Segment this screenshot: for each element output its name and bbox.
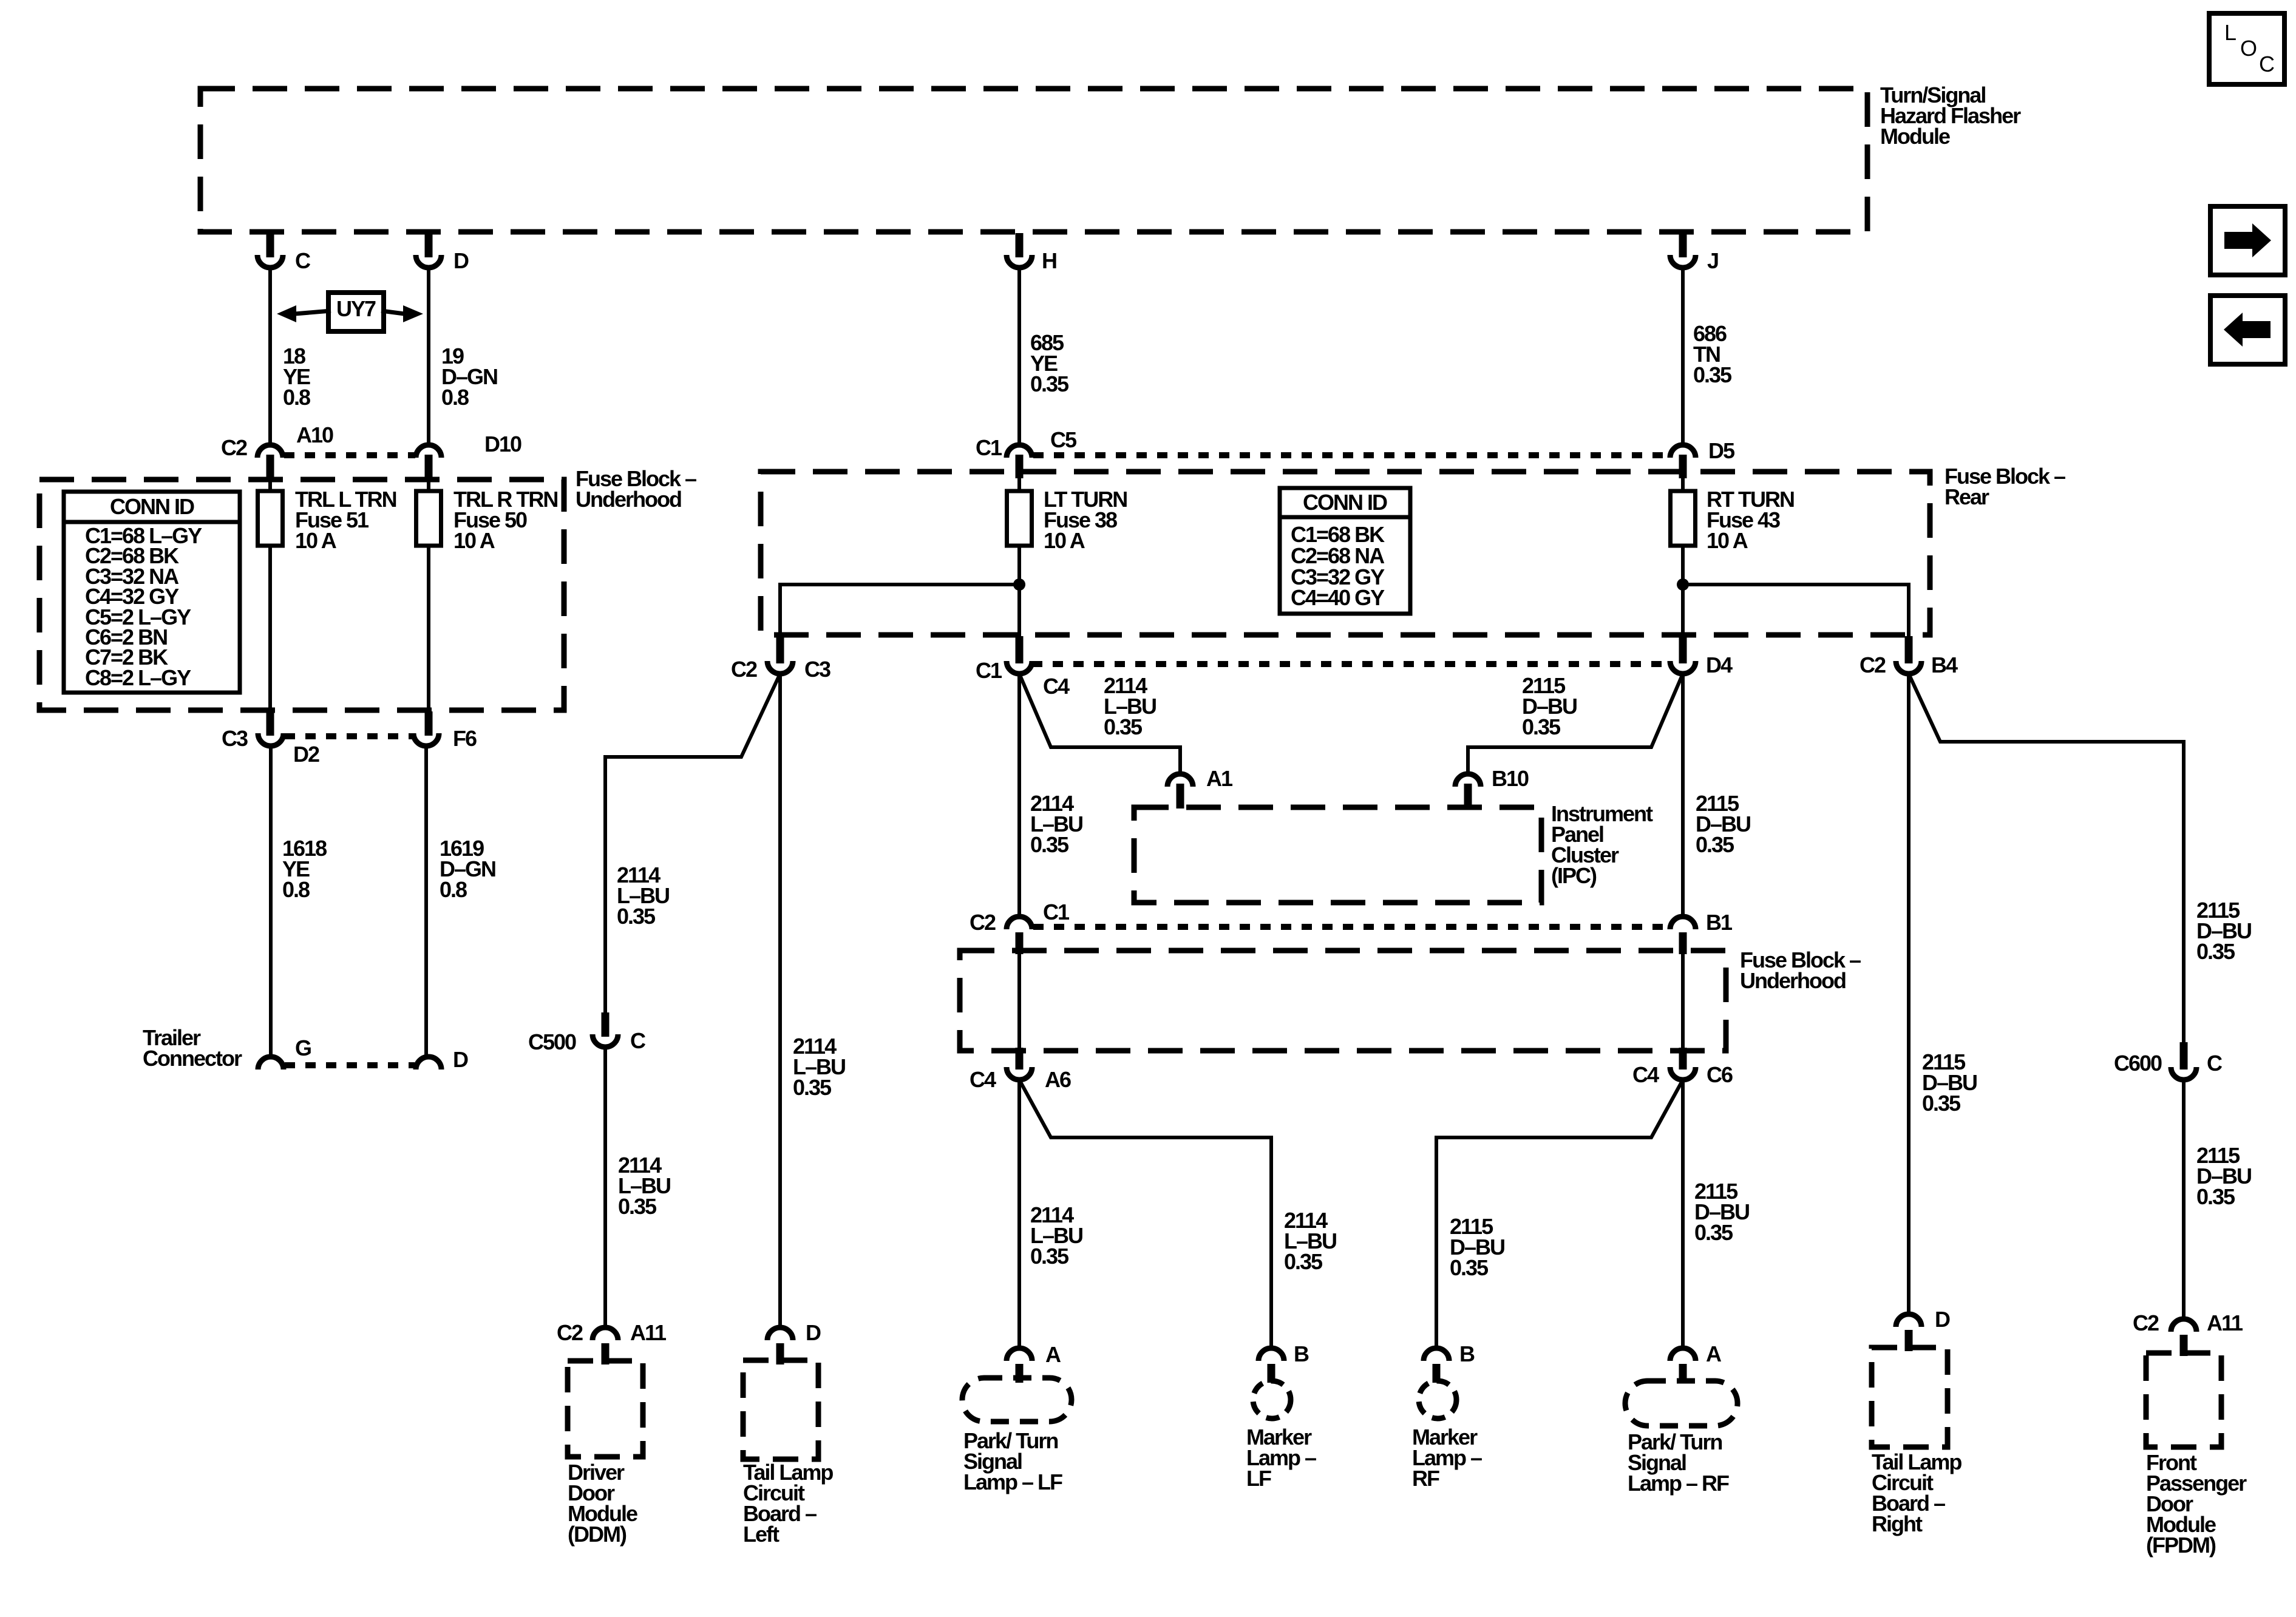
connector C2/A11 (FPDM)	[2133, 1310, 2243, 1356]
connector J (flasher module output)	[1670, 233, 1718, 273]
Turn/Signal Hazard Flasher Module box	[200, 89, 1867, 232]
connector F6	[413, 711, 477, 751]
wire C3 to C500	[605, 674, 780, 1012]
wire through underhood box left	[1017, 954, 1021, 1048]
wire D4 to B10	[1468, 674, 1683, 775]
wire 1619 segment	[427, 546, 430, 711]
connector C2/C3	[731, 636, 830, 682]
svg-text:0.35: 0.35	[2196, 939, 2235, 964]
label 18 YE 0.8	[283, 344, 310, 410]
branch wire to C3 terminal	[780, 585, 1019, 637]
label 2115 D-BU 0.35 (FPDM wire)	[2196, 1143, 2251, 1209]
UY7 left arrow	[277, 305, 331, 322]
connector C2/B4	[1860, 636, 1958, 677]
label Marker Lamp - LF	[1246, 1425, 1316, 1491]
label Marker Lamp - RF	[1412, 1425, 1482, 1491]
connector H (flasher module output)	[1007, 233, 1056, 273]
svg-text:Rear: Rear	[1944, 484, 1989, 509]
connector B10	[1455, 766, 1529, 808]
connector D4	[1670, 636, 1733, 677]
svg-text:(DDM): (DDM)	[568, 1522, 627, 1547]
connector C4/A6	[970, 1048, 1071, 1092]
fuse RT TURN Fuse 43 10A	[1671, 458, 1794, 553]
label 19 D-GN 0.8	[441, 344, 497, 410]
label Tail Lamp Circuit Board - Right	[1872, 1449, 1961, 1536]
wire C600 to FPDM	[2182, 1080, 2186, 1319]
svg-text:B: B	[1294, 1341, 1309, 1366]
junction dot left	[1013, 578, 1025, 591]
svg-text:C6: C6	[1707, 1062, 1733, 1087]
svg-text:0.35: 0.35	[1030, 1244, 1069, 1269]
wire D (circuit 19)	[427, 268, 430, 445]
svg-text:0.8: 0.8	[441, 385, 469, 410]
connector A1	[1167, 766, 1233, 808]
svg-text:0.35: 0.35	[1104, 714, 1143, 739]
wire C3 to tail lamp left	[778, 674, 782, 1327]
svg-text:D: D	[453, 248, 469, 273]
svg-text:C1: C1	[976, 435, 1002, 460]
label 685 YE 0.35	[1030, 330, 1069, 396]
branch wire to B4 terminal	[1683, 585, 1909, 637]
svg-text:D2: D2	[293, 742, 319, 767]
wire B4 to C600	[1909, 674, 2184, 1042]
svg-text:0.8: 0.8	[282, 877, 310, 902]
svg-text:0.35: 0.35	[1696, 832, 1734, 857]
svg-text:C2: C2	[731, 657, 757, 682]
wire to trailer D	[424, 746, 428, 1058]
label 2115 D-BU 0.35 (C600 branch)	[2196, 898, 2251, 964]
svg-text:Underhood: Underhood	[1740, 968, 1846, 993]
svg-text:C: C	[2259, 52, 2275, 76]
svg-text:C: C	[2207, 1051, 2223, 1076]
svg-text:D5: D5	[1708, 438, 1735, 463]
wire C6 to marker RF	[1436, 1080, 1683, 1348]
dotted pair line C1-B1	[1033, 924, 1669, 930]
wire A6 to marker LF	[1019, 1080, 1271, 1348]
svg-text:0.35: 0.35	[1693, 362, 1732, 387]
dotted pair line A10-D10	[284, 452, 415, 458]
UY7 right arrow	[381, 305, 423, 322]
svg-text:B10: B10	[1492, 766, 1529, 791]
connector C2/C1	[970, 900, 1070, 954]
label Trailer Connector	[143, 1025, 242, 1071]
svg-text:H: H	[1042, 248, 1056, 273]
Park/Turn Signal Lamp RF symbol	[1625, 1381, 1737, 1426]
dotted pair line C3-F6	[285, 733, 412, 739]
trailer connector D	[416, 1047, 468, 1072]
label 1618 YE 0.8	[282, 836, 327, 902]
svg-text:0.35: 0.35	[2196, 1184, 2235, 1209]
svg-text:B: B	[1459, 1341, 1475, 1366]
svg-text:D4: D4	[1706, 653, 1733, 677]
svg-text:O: O	[2240, 36, 2257, 61]
Tail Lamp Circuit Board Left box	[743, 1360, 818, 1459]
svg-text:CONN ID: CONN ID	[110, 494, 194, 519]
wire to trailer G	[269, 746, 273, 1058]
CONN ID table (underhood)	[64, 492, 240, 693]
wire C4 to A1	[1019, 674, 1180, 775]
label 2114 L-BU 0.35 (DDM wire)	[618, 1153, 670, 1219]
svg-text:UY7: UY7	[336, 296, 376, 321]
svg-text:A1: A1	[1206, 766, 1233, 791]
svg-text:Left: Left	[743, 1522, 779, 1547]
label Tail Lamp Circuit Board - Left	[743, 1460, 833, 1547]
svg-text:A10: A10	[296, 422, 333, 447]
connector C500	[528, 1012, 646, 1054]
svg-text:B4: B4	[1931, 653, 1958, 677]
LOC legend box	[2209, 13, 2284, 84]
connector C (flasher module output)	[257, 233, 311, 273]
wire 2115 J segment	[1681, 674, 1685, 917]
svg-text:RF: RF	[1412, 1466, 1439, 1491]
label 2114 L-BU 0.35 (C500 upper)	[617, 863, 669, 929]
svg-text:C2: C2	[557, 1320, 583, 1345]
connector D (tail lamp left)	[767, 1320, 821, 1364]
dotted pair line C5-D5	[1033, 452, 1669, 458]
connector A (park/turn LF)	[1007, 1342, 1061, 1383]
svg-text:L: L	[2224, 20, 2237, 45]
svg-text:CONN ID: CONN ID	[1303, 490, 1387, 515]
wire through underhood box right	[1681, 954, 1685, 1048]
wire 1618 segment	[268, 546, 272, 711]
svg-text:LF: LF	[1246, 1466, 1271, 1491]
label 2114 L-BU 0.35 (tail left wire)	[793, 1034, 845, 1100]
svg-text:0.35: 0.35	[1922, 1091, 1961, 1116]
svg-text:0.35: 0.35	[1284, 1249, 1323, 1274]
connector B (marker LF)	[1258, 1341, 1309, 1383]
svg-text:Right: Right	[1872, 1511, 1923, 1536]
svg-text:0.8: 0.8	[283, 385, 310, 410]
svg-text:C4: C4	[1043, 674, 1070, 699]
wire A6 to park turn LF	[1017, 1080, 1021, 1348]
svg-text:C3: C3	[222, 726, 248, 751]
label Fuse Block - Rear	[1944, 464, 2065, 509]
Tail Lamp Circuit Board Right box	[1872, 1347, 1948, 1447]
connector D10	[416, 432, 521, 478]
label Turn/Signal Hazard Flasher Module	[1880, 83, 2021, 149]
Driver Door Module box	[568, 1361, 643, 1457]
label Front Passenger Door Module (FPDM)	[2146, 1450, 2247, 1558]
label 2115 D-BU 0.35 (park RF wire)	[1694, 1179, 1749, 1245]
svg-text:(FPDM): (FPDM)	[2146, 1533, 2216, 1558]
svg-text:C8=2 L–GY: C8=2 L–GY	[85, 665, 191, 690]
connector B (marker RF)	[1424, 1341, 1475, 1383]
svg-text:C: C	[295, 248, 311, 273]
svg-text:D: D	[1935, 1307, 1950, 1332]
svg-text:Connector: Connector	[143, 1046, 242, 1071]
label Instrument Panel Cluster (IPC)	[1551, 801, 1653, 888]
svg-text:0.35: 0.35	[618, 1194, 657, 1219]
dotted pair line G-D	[285, 1062, 415, 1068]
svg-text:F6: F6	[453, 726, 477, 751]
label 686 TN 0.35	[1693, 321, 1732, 387]
svg-text:J: J	[1707, 248, 1718, 273]
left arrow icon	[2210, 296, 2285, 364]
Park/Turn Signal Lamp LF symbol	[962, 1378, 1072, 1422]
label 2114 L-BU 0.35 (C4 branch)	[1104, 673, 1156, 739]
label 2115 D-BU 0.35 (D4 branch)	[1522, 673, 1577, 739]
wire C500 to DDM	[603, 1047, 607, 1327]
fuse LT TURN Fuse 38 10A	[1007, 458, 1127, 553]
svg-text:C1: C1	[976, 658, 1002, 683]
svg-text:C4: C4	[970, 1067, 996, 1092]
label 2114 L-BU 0.35 (park LF wire)	[1030, 1202, 1082, 1269]
svg-text:Module: Module	[1880, 124, 1950, 149]
connector C600	[2114, 1042, 2223, 1080]
wire H (circuit 685)	[1017, 268, 1021, 445]
svg-text:0.35: 0.35	[617, 904, 656, 929]
label 1619 D-GN 0.8	[440, 836, 495, 902]
svg-text:A6: A6	[1045, 1067, 1071, 1092]
dotted pair line C4-D4	[1032, 661, 1670, 667]
svg-text:C4: C4	[1632, 1062, 1659, 1087]
label 2114 L-BU 0.35 (marker LF wire)	[1284, 1208, 1336, 1274]
label 2115 D-BU 0.35 (marker RF wire)	[1450, 1214, 1504, 1280]
connector D (tail lamp right)	[1896, 1307, 1950, 1351]
svg-text:10 A: 10 A	[453, 528, 495, 553]
svg-text:C500: C500	[528, 1029, 576, 1054]
wire C (circuit 18)	[268, 268, 272, 445]
svg-text:C4=40 GY: C4=40 GY	[1291, 585, 1385, 610]
Fuse Block Underhood (left) box	[39, 480, 564, 710]
svg-text:G: G	[295, 1036, 311, 1060]
Fuse Block Rear box	[761, 472, 1930, 635]
svg-text:C2: C2	[221, 435, 247, 460]
connector A (park/turn RF)	[1670, 1341, 1722, 1383]
trailer connector G	[258, 1036, 311, 1070]
connector C2/A11 (DDM)	[557, 1320, 667, 1364]
connector D (flasher module output)	[416, 233, 469, 273]
Front Passenger Door Module box	[2146, 1353, 2221, 1447]
wire B4 to tail lamp right	[1907, 674, 1911, 1314]
label Park/Turn Signal Lamp - RF	[1628, 1429, 1729, 1496]
svg-text:Lamp – RF: Lamp – RF	[1628, 1471, 1729, 1496]
svg-text:0.35: 0.35	[1522, 714, 1561, 739]
svg-text:0.35: 0.35	[1030, 371, 1069, 396]
svg-text:A11: A11	[630, 1320, 667, 1345]
svg-text:A: A	[1045, 1342, 1061, 1367]
wire C6 to park turn RF	[1681, 1080, 1685, 1348]
svg-text:D10: D10	[484, 432, 521, 456]
right arrow icon	[2210, 206, 2285, 275]
connector C2/A10	[221, 422, 333, 478]
Fuse Block Underhood (second) box	[960, 951, 1726, 1051]
svg-text:C2: C2	[1860, 653, 1886, 677]
label Driver Door Module (DDM)	[568, 1460, 637, 1547]
svg-text:C2: C2	[970, 910, 996, 935]
svg-text:D: D	[453, 1047, 468, 1072]
fuse TRL L TRN Fuse 51 10A	[258, 458, 396, 553]
wire J (circuit 686)	[1681, 268, 1685, 445]
svg-text:0.35: 0.35	[1694, 1220, 1733, 1245]
svg-text:A: A	[1706, 1341, 1722, 1366]
svg-text:C3: C3	[804, 657, 830, 682]
connector C4/C6	[1632, 1048, 1733, 1087]
svg-text:C1: C1	[1043, 900, 1070, 924]
svg-text:C: C	[630, 1028, 646, 1053]
Marker Lamp LF symbol	[1253, 1381, 1291, 1419]
svg-text:A11: A11	[2207, 1310, 2243, 1335]
label 2115 D-BU 0.35 (tail right wire)	[1922, 1049, 1977, 1116]
svg-text:D: D	[806, 1320, 821, 1345]
label 2115 D-BU 0.35 (J wire)	[1696, 791, 1750, 857]
svg-text:C2: C2	[2133, 1310, 2159, 1335]
connector C1/C4	[976, 636, 1070, 699]
connector B1	[1670, 910, 1733, 954]
svg-text:C5: C5	[1050, 427, 1077, 452]
wire 2114 H segment	[1017, 674, 1021, 917]
svg-text:0.35: 0.35	[1450, 1255, 1489, 1280]
label 2114 L-BU 0.35 (H wire)	[1030, 791, 1082, 857]
wire below fuse 43	[1681, 546, 1685, 637]
svg-text:B1: B1	[1706, 910, 1733, 935]
label Fuse Block - Underhood (second)	[1740, 947, 1861, 993]
connector C1/C5	[976, 427, 1077, 478]
CONN ID table (rear)	[1280, 488, 1410, 614]
fuse TRL R TRN Fuse 50 10A	[416, 458, 558, 553]
wire below fuse 38	[1017, 546, 1021, 637]
connector C3/D2	[222, 711, 319, 767]
svg-text:10 A: 10 A	[1044, 528, 1085, 553]
svg-text:10 A: 10 A	[295, 528, 337, 553]
svg-text:Lamp – LF: Lamp – LF	[963, 1470, 1062, 1494]
Marker Lamp RF symbol	[1419, 1381, 1456, 1419]
svg-text:Underhood: Underhood	[576, 487, 681, 512]
label Fuse Block - Underhood (left)	[576, 466, 696, 512]
junction dot right	[1677, 578, 1689, 591]
svg-text:(IPC): (IPC)	[1551, 863, 1597, 888]
UY7 option box	[328, 293, 384, 331]
label Park/Turn Signal Lamp - LF	[963, 1428, 1062, 1494]
svg-text:0.35: 0.35	[1030, 832, 1069, 857]
Instrument Panel Cluster box	[1134, 807, 1541, 903]
connector D5	[1670, 438, 1735, 478]
svg-text:C600: C600	[2114, 1051, 2162, 1076]
svg-text:0.35: 0.35	[793, 1075, 832, 1100]
svg-text:10 A: 10 A	[1707, 528, 1748, 553]
svg-text:0.8: 0.8	[440, 877, 467, 902]
